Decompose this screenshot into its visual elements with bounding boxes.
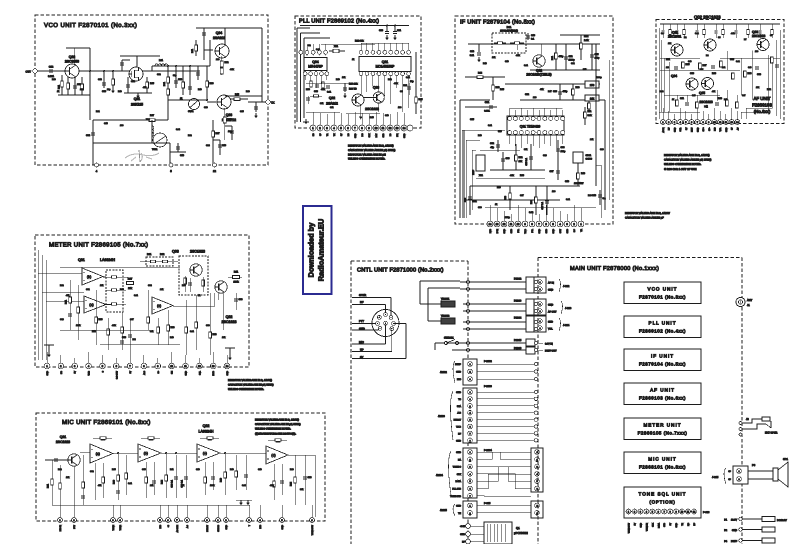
- MAIN sub-box IF UNIT: [624, 349, 701, 371]
- svg-text:7: 7: [469, 432, 470, 435]
- svg-text:J2005: J2005: [440, 509, 447, 512]
- svg-text:UNLESS OTHERWISE NOTED.: UNLESS OTHERWISE NOTED.: [348, 158, 386, 161]
- svg-text:MIC IN: MIC IN: [59, 524, 62, 531]
- transistor Q02 circle: [704, 39, 716, 51]
- svg-text:※ R08 C04: 1 OUT OF USE: ※ R08 C04: 1 OUT OF USE: [664, 168, 697, 171]
- connector J-2004: [463, 448, 477, 498]
- MAIN sub-box VCO UNIT: [624, 282, 701, 304]
- MAIN sub-box AF UNIT: [624, 383, 701, 405]
- svg-text:1k: 1k: [180, 97, 182, 100]
- MAIN unit top border: [538, 257, 742, 259]
- svg-text:GND: GND: [46, 370, 49, 375]
- svg-text:Q01: Q01: [134, 97, 141, 101]
- wire a out to b: [113, 452, 138, 454]
- svg-text:GND: GND: [503, 228, 506, 233]
- wire left nest IF: [459, 100, 461, 218]
- svg-text:BUFF OUT: BUFF OUT: [545, 350, 557, 353]
- wire c out to d: [220, 452, 266, 454]
- svg-text:(a): (a): [89, 303, 93, 307]
- svg-text:GND: GND: [225, 524, 228, 529]
- svg-text:R22 39k: R22 39k: [355, 40, 364, 43]
- svg-text:MIC: MIC: [359, 341, 364, 344]
- svg-text:33k: 33k: [300, 488, 303, 491]
- svg-text:AF IN: AF IN: [548, 282, 554, 285]
- svg-text:2: 2: [738, 478, 739, 481]
- connector J-2005: [463, 501, 477, 518]
- svg-text:RF: RF: [360, 301, 364, 304]
- svg-text:C4580: C4580: [586, 158, 593, 161]
- svg-text:NSB: NSB: [489, 228, 492, 233]
- connector J-2003: [463, 388, 477, 443]
- coil L02: [151, 120, 153, 143]
- wire bottom bus: [93, 142, 170, 144]
- transistor Q05: [702, 78, 714, 90]
- svg-text:F2869103: F2869103: [752, 103, 772, 108]
- MIC terminal risers: [59, 505, 61, 517]
- svg-text:10k: 10k: [100, 284, 103, 287]
- wire Q04 risers: [300, 44, 302, 50]
- resistor R12: [220, 61, 223, 67]
- capacitor AF top 11: [771, 24, 773, 30]
- svg-text:1k: 1k: [198, 294, 200, 297]
- IC Q01 bottom pins: [508, 131, 512, 135]
- svg-text:33k: 33k: [700, 68, 703, 71]
- svg-text:P-606: P-606: [703, 511, 710, 514]
- capacitor C21: [394, 26, 396, 32]
- wire Q01 to opamp a: [80, 451, 90, 453]
- svg-text:IF IN: IF IN: [496, 228, 499, 233]
- svg-text:GND: GND: [696, 127, 699, 132]
- mic mesh 4: [204, 462, 206, 495]
- op-amp U1b: [82, 268, 103, 285]
- resistor R14: [230, 98, 248, 100]
- wire rail 100: [520, 99, 605, 101]
- svg-text:R4: R4: [706, 54, 708, 57]
- transistor Q02 2SC3356: [65, 64, 79, 78]
- svg-text:C5: C5: [718, 36, 720, 39]
- ANT jack J1: [736, 297, 745, 306]
- svg-text:Q05: Q05: [699, 91, 705, 95]
- svg-text:GND: GND: [226, 370, 229, 375]
- wire Q02 collector: [74, 48, 76, 65]
- svg-text:2SC1623: 2SC1623: [699, 100, 713, 104]
- svg-text:TN B: TN B: [524, 228, 527, 233]
- capacitor C12: [565, 44, 567, 70]
- svg-text:470p: 470p: [595, 57, 601, 60]
- svg-text:2: 2: [536, 512, 537, 515]
- meter left components: [69, 280, 71, 330]
- op-amp M-c: [197, 444, 220, 462]
- wire Q04 pin drops: [304, 76, 306, 80]
- svg-text:1000p: 1000p: [596, 76, 602, 79]
- svg-text:6: 6: [469, 426, 470, 429]
- meter right mesh: [185, 300, 187, 355]
- svg-text:×2: ×2: [704, 105, 708, 109]
- svg-text:VOL: VOL: [548, 328, 553, 331]
- svg-text:LA6324H: LA6324H: [100, 258, 115, 262]
- capacitor C10: [203, 28, 205, 40]
- DIN connector MIC socket: [372, 310, 399, 337]
- svg-text:SW2001: SW2001: [444, 337, 454, 340]
- Q03 dashed box: [179, 256, 208, 295]
- svg-text:0.001: 0.001: [484, 110, 490, 113]
- svg-text:2SK125: 2SK125: [131, 103, 143, 107]
- op-amp M-d: [266, 446, 288, 464]
- svg-text:J-005: J-005: [712, 476, 719, 479]
- wire opamp b output: [103, 276, 106, 278]
- svg-text:VR2001: VR2001: [441, 298, 450, 301]
- svg-text:2: 2: [469, 512, 470, 515]
- svg-text:AF IN: AF IN: [662, 127, 665, 133]
- svg-text:CLK: CLK: [651, 522, 654, 527]
- capacitor C07: [189, 66, 191, 95]
- VR2001 trimmer: [441, 301, 455, 307]
- METER terminal risers: [46, 352, 48, 363]
- svg-text:-B IN: -B IN: [460, 525, 465, 528]
- svg-text:4.7k: 4.7k: [510, 174, 514, 177]
- svg-text:PLL STB: PLL STB: [452, 488, 461, 491]
- capacitor AF top 0: [662, 24, 664, 30]
- crystal X01: [333, 49, 339, 52]
- svg-text:X01: X01: [334, 45, 339, 48]
- svg-text:CAPACITOR VALUES ARE IN μF, 50: CAPACITOR VALUES ARE IN μF, 50Wv): [348, 149, 395, 152]
- svg-text:P-005: P-005: [484, 502, 491, 505]
- wire rail 200: [465, 199, 560, 201]
- svg-text:4.7k: 4.7k: [731, 32, 735, 35]
- svg-text:SP-: SP-: [708, 127, 711, 131]
- wire PLL left nest inner: [303, 38, 305, 118]
- svg-text:HIC: HIC: [159, 524, 162, 528]
- svg-text:Q02: Q02: [69, 55, 76, 59]
- svg-text:56k: 56k: [583, 68, 586, 71]
- svg-text:2SC1623: 2SC1623: [752, 34, 766, 38]
- svg-text:C12: C12: [49, 66, 54, 69]
- svg-text:HA: HA: [458, 458, 462, 461]
- resistor R13: [492, 77, 494, 100]
- svg-text:2SC3356: 2SC3356: [65, 60, 79, 64]
- capacitor C18: [219, 140, 221, 155]
- svg-text:D02: D02: [160, 253, 165, 256]
- svg-text:Q01: Q01: [382, 60, 389, 64]
- svg-text:Q02 2SC1623: Q02 2SC1623: [694, 15, 721, 20]
- wire Q02 emitter gnd: [360, 106, 362, 114]
- svg-text:MC145158P: MC145158P: [376, 64, 396, 68]
- discriminator CD01: [573, 152, 583, 163]
- svg-text:C1: C1: [661, 32, 663, 35]
- svg-text:CAPACITOR VALUES ARE IN μF: CAPACITOR VALUES ARE IN μF: [625, 216, 664, 219]
- svg-text:CAPACITOR VALUES ARE IN μF, 50: CAPACITOR VALUES ARE IN μF, 50Wv): [664, 159, 711, 162]
- svg-text:1000p: 1000p: [569, 59, 576, 62]
- wire AF rail 58: [660, 57, 700, 59]
- MAIN unit right border: [741, 258, 743, 544]
- junction: [89, 70, 91, 72]
- svg-text:10k: 10k: [342, 76, 345, 79]
- svg-text:Q03: Q03: [373, 86, 379, 90]
- MAIN sub-box TONE SQL UNIT: [624, 487, 701, 518]
- svg-text:220p: 220p: [505, 216, 511, 219]
- svg-text:2SC1623(T2BLB): 2SC1623(T2BLB): [526, 73, 551, 77]
- svg-text:MIC: MIC: [259, 524, 262, 528]
- svg-text:R7: R7: [744, 38, 746, 41]
- capacitor AF top 9: [747, 24, 749, 30]
- svg-text:C8: C8: [770, 34, 772, 37]
- svg-text:F2879104 (No.5xx): F2879104 (No.5xx): [639, 362, 686, 367]
- svg-text:1: 1: [539, 303, 540, 306]
- svg-text:1: 1: [469, 451, 470, 454]
- svg-text:GND: GND: [456, 439, 461, 442]
- svg-text:P2002: P2002: [514, 278, 522, 281]
- svg-text:3: 3: [536, 466, 537, 469]
- wire IF left bottom nest: [462, 130, 505, 218]
- svg-text:TC01: TC01: [152, 148, 158, 151]
- IF unit board outline: [455, 16, 613, 224]
- svg-text:STB: STB: [663, 522, 666, 527]
- svg-text:1: 1: [469, 363, 470, 366]
- PLL terminal row: [310, 125, 316, 131]
- capacitor AF top 5: [703, 24, 705, 30]
- svg-text:4.7k: 4.7k: [230, 68, 234, 71]
- IC Q04 bottom pins: [304, 71, 306, 74]
- MAIN sub-box METER UNIT: [624, 418, 701, 440]
- svg-text:R2: R2: [684, 36, 686, 39]
- svg-text:C08 0.1: C08 0.1: [171, 479, 174, 487]
- svg-text:IF UNIT: IF UNIT: [651, 354, 674, 359]
- terminal OUT: [33, 69, 37, 73]
- capacitor C07: [557, 162, 559, 180]
- svg-text:GND: GND: [538, 228, 541, 233]
- ground meter left: [47, 352, 51, 357]
- svg-text:6: 6: [536, 488, 537, 491]
- svg-text:L01: L01: [159, 59, 164, 62]
- wire IF mid rails extra: [480, 149, 520, 151]
- svg-text:Q04: Q04: [312, 60, 319, 64]
- capacitor C18 left: [469, 186, 471, 215]
- svg-text:1: 1: [539, 281, 540, 284]
- PLL unit board outline: [295, 16, 421, 128]
- svg-text:100: 100: [755, 50, 758, 53]
- svg-text:GND: GND: [460, 533, 465, 536]
- capacitor AF top 6: [715, 24, 717, 30]
- svg-text:47k: 47k: [66, 294, 69, 297]
- IC Q04 M54479P: [304, 58, 327, 71]
- mic mesh 3: [145, 462, 147, 498]
- transistor Q04 2SA812: [215, 44, 229, 58]
- wire pll bottom risers: [312, 112, 314, 125]
- capacitor C16: [255, 102, 257, 112]
- wire mic low rail: [52, 504, 250, 506]
- svg-text:CAPACITOR VALUES ARE IN μF, 50: CAPACITOR VALUES ARE IN μF, 50Wv): [255, 423, 301, 426]
- svg-text:R16: R16: [724, 98, 727, 101]
- svg-text:475p: 475p: [563, 90, 569, 93]
- diode D03: [220, 68, 223, 74]
- svg-text:D01: D01: [147, 253, 152, 256]
- svg-text:J-002: J-002: [563, 285, 570, 288]
- svg-text:TX: TX: [271, 102, 275, 105]
- svg-text:10k: 10k: [590, 98, 595, 101]
- IC Q01 top pins: [360, 52, 362, 54]
- IC Q01 MC145158P: [359, 57, 411, 72]
- svg-text:P2004: P2004: [514, 317, 522, 320]
- svg-text:BURST: BURST: [206, 524, 209, 532]
- METER unit board outline: [35, 235, 249, 367]
- svg-text:DO: DO: [361, 133, 364, 136]
- svg-text:1k: 1k: [495, 203, 497, 206]
- wire hrail 70: [530, 69, 600, 71]
- capacitor C12: [50, 69, 52, 73]
- MAIN sub-box MIC UNIT: [624, 452, 701, 474]
- resistor R11 3.3k vertical right: [584, 107, 586, 125]
- svg-text:INDUCTOR VALUES ARE IN μH: INDUCTOR VALUES ARE IN μH: [348, 153, 386, 156]
- svg-text:Q02: Q02: [203, 424, 210, 428]
- svg-text:F2870101 (No.3xx): F2870101 (No.3xx): [639, 295, 686, 300]
- svg-text:VCO UNIT F2870101 (No.3xx): VCO UNIT F2870101 (No.3xx): [44, 22, 137, 29]
- svg-text:OUT: OUT: [26, 71, 32, 74]
- svg-text:TONE: TONE: [112, 524, 115, 530]
- crossing wires J2004: [477, 452, 531, 459]
- svg-text:DATA: DATA: [455, 480, 461, 483]
- svg-text:METER UNIT F2869105 (No.7xx): METER UNIT F2869105 (No.7xx): [49, 242, 148, 249]
- MAIN edge feedthroughs: [534, 280, 537, 283]
- wire mid rail: [306, 82, 352, 84]
- svg-text:0.01: 0.01: [695, 32, 699, 35]
- svg-text:P-2004: P-2004: [484, 449, 492, 452]
- svg-text:AF UNIT: AF UNIT: [650, 388, 675, 393]
- diode D01 dashed box: [492, 33, 526, 53]
- capacitor AF top 7: [722, 24, 724, 30]
- capacitor AF top 8: [735, 24, 737, 30]
- svg-text:1: 1: [536, 451, 537, 454]
- terminal 5: [169, 163, 173, 167]
- capacitor C17: [231, 126, 233, 140]
- wire right nest: [595, 44, 597, 186]
- svg-text:Q03: Q03: [172, 250, 179, 254]
- wire Q04 base: [204, 49, 213, 51]
- svg-text:P2006: P2006: [514, 347, 522, 350]
- svg-text:DC13.8V: DC13.8V: [777, 519, 787, 522]
- svg-text:100/1/8W: 100/1/8W: [574, 182, 584, 185]
- svg-text:C01: C01: [485, 101, 490, 104]
- transistor Q02 2SC1623: [215, 281, 227, 293]
- resistor R05: [146, 77, 148, 93]
- svg-text:PLL UNIT: PLL UNIT: [649, 321, 677, 326]
- svg-text:STB: STB: [382, 133, 385, 138]
- svg-text:47k: 47k: [143, 86, 146, 89]
- inductor L01: [155, 64, 168, 66]
- svg-text:2: 2: [536, 458, 537, 461]
- speaker SP1: [773, 468, 778, 481]
- wire IF top rail: [468, 43, 600, 45]
- right side vertical: [415, 52, 417, 114]
- svg-text:ALC: ALC: [143, 370, 146, 374]
- wire rail 84: [505, 83, 600, 85]
- resistor R17: [212, 131, 215, 137]
- capacitor C07 under Q04: [306, 98, 310, 100]
- svg-text:SM: SM: [171, 371, 174, 374]
- wire IC risers top: [509, 108, 511, 116]
- svg-text:2.2k: 2.2k: [584, 39, 589, 42]
- wire Q01 top: [136, 56, 138, 68]
- svg-text:RESISTOR VALUES ARE IN Ω, 1/16: RESISTOR VALUES ARE IN Ω, 1/16W: [625, 212, 670, 215]
- resistor R08: [206, 66, 208, 100]
- svg-text:Downloaded by: Downloaded by: [307, 222, 316, 278]
- svg-text:TX B: TX B: [456, 426, 461, 429]
- resistor R25 right: [415, 97, 418, 103]
- capacitor C17: [546, 186, 548, 215]
- resistor R11: [195, 40, 197, 56]
- svg-text:220: 220: [666, 66, 669, 69]
- IF terminal risers: [489, 205, 491, 221]
- svg-text:RESISTOR VALUES ARE IN Ω, 1/16: RESISTOR VALUES ARE IN Ω, 1/16W): [255, 419, 299, 422]
- wires CNTL to MAIN connectors: [460, 281, 526, 283]
- svg-text:(b): (b): [144, 451, 148, 455]
- svg-text:(b): (b): [87, 275, 91, 279]
- resistor R16: [223, 117, 226, 123]
- svg-text:ANT: ANT: [747, 299, 753, 302]
- svg-text:A-B: A-B: [457, 412, 461, 415]
- svg-text:CLK: CLK: [368, 133, 371, 138]
- svg-text:Q01 TK10420: Q01 TK10420: [520, 125, 541, 129]
- svg-text:100k: 100k: [76, 324, 80, 327]
- transistor Q03 2SC2712: [217, 95, 231, 109]
- power connector P1: [739, 517, 742, 520]
- resistor R03: [509, 186, 511, 210]
- svg-text:(No.6xx): (No.6xx): [754, 109, 771, 114]
- svg-text:22k: 22k: [160, 288, 163, 291]
- IC Q04 top pins: [300, 52, 302, 55]
- svg-text:4.7k: 4.7k: [270, 484, 274, 487]
- CNTL unit right border: [467, 261, 469, 544]
- resistor R07 bias: [140, 119, 168, 121]
- svg-text:TONE IN: TONE IN: [645, 522, 648, 531]
- svg-text:1: 1: [536, 505, 537, 508]
- svg-text:C15: C15: [692, 94, 695, 97]
- svg-text:μPC7808H: μPC7808H: [514, 531, 528, 535]
- wire Q03 collector to out: [225, 95, 262, 97]
- svg-text:TN: TN: [458, 512, 461, 515]
- svg-text:RadioAmateur.EU: RadioAmateur.EU: [317, 219, 326, 281]
- svg-text:UNLESS OTHERWISE NOTED.: UNLESS OTHERWISE NOTED.: [255, 428, 291, 431]
- svg-text:Q04: Q04: [216, 31, 223, 35]
- TONE SQL pin row: [626, 509, 631, 514]
- svg-text:2: 2: [539, 310, 540, 313]
- svg-text:6: 6: [469, 488, 470, 491]
- svg-text:120p: 120p: [561, 150, 567, 153]
- ground meter right: [228, 355, 232, 360]
- svg-text:1k: 1k: [672, 98, 674, 101]
- svg-text:F2869105 (No.7xxx): F2869105 (No.7xxx): [638, 431, 688, 436]
- regulator Q1 uPC7808H: [484, 522, 512, 544]
- svg-text:GND: GND: [354, 133, 357, 138]
- svg-text:AG 30M: AG 30M: [176, 525, 179, 533]
- svg-text:J-003: J-003: [565, 307, 572, 310]
- wire AF left nest: [658, 28, 660, 119]
- wire AF mid mesh: [660, 69, 740, 71]
- MIC terminal row: [58, 518, 63, 523]
- svg-text:TONE STB: TONE STB: [450, 495, 461, 498]
- svg-text:5: 5: [536, 480, 537, 483]
- svg-text:R03 23k: R03 23k: [349, 83, 358, 86]
- svg-text:R07: R07: [128, 278, 133, 281]
- svg-text:CV01: CV01: [188, 110, 194, 113]
- svg-text:P2003: P2003: [514, 300, 522, 303]
- wire Q02 emitter: [223, 293, 225, 330]
- capacitor C09: [235, 293, 237, 310]
- svg-text:0.8V IN: 0.8V IN: [545, 343, 553, 346]
- regulator input circles: [466, 524, 471, 529]
- op-amp M-a: [90, 444, 113, 463]
- svg-text:C.S OUT: C.S OUT: [115, 370, 118, 379]
- MIC unit board outline: [36, 413, 325, 521]
